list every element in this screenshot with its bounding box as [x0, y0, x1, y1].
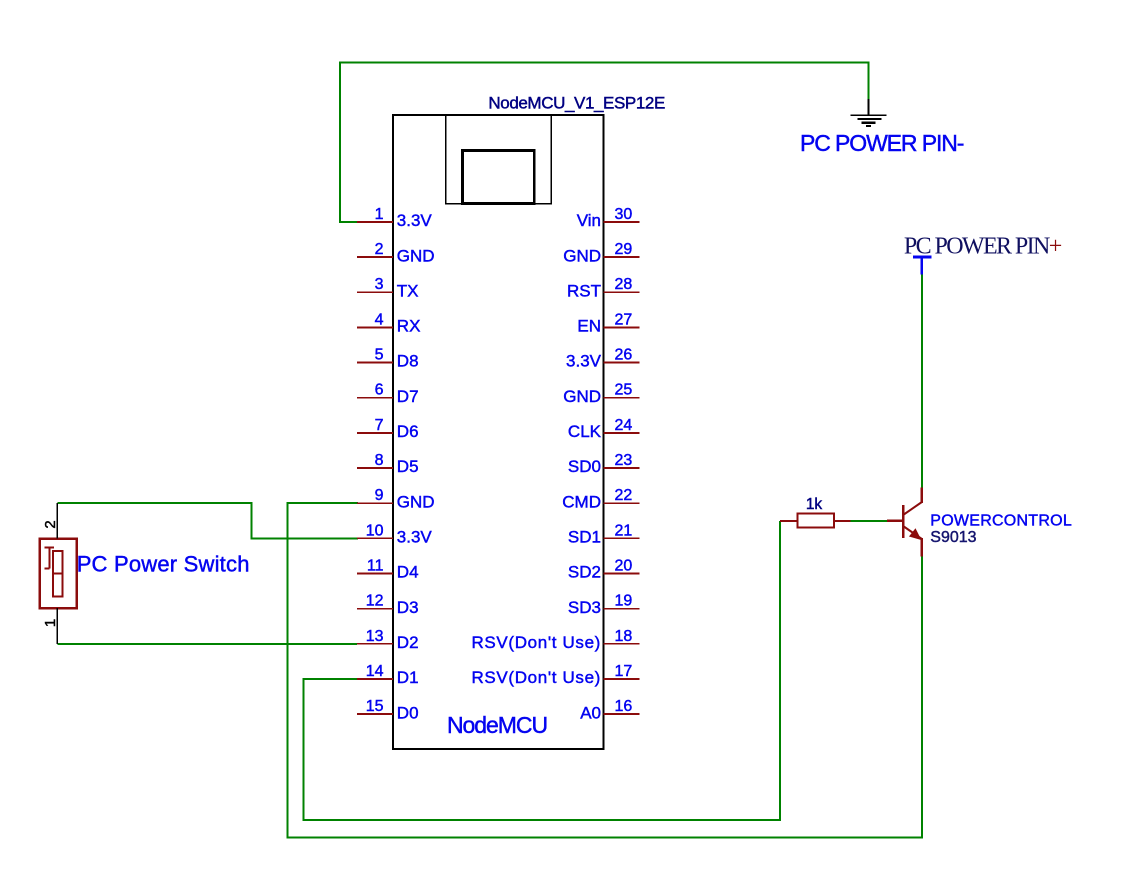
svg-text:1: 1	[42, 619, 59, 627]
svg-text:A0: A0	[580, 703, 601, 722]
svg-text:15: 15	[366, 698, 384, 715]
svg-text:EN: EN	[577, 317, 601, 336]
svg-text:PC Power Switch: PC Power Switch	[77, 552, 250, 577]
svg-text:28: 28	[615, 276, 633, 293]
pin 29 (GND) right	[563, 241, 639, 265]
pin 26 (3.3V) right	[566, 347, 639, 371]
pin 5 (D8) left	[357, 347, 419, 371]
svg-text:4: 4	[375, 311, 384, 328]
svg-text:D0: D0	[397, 703, 419, 722]
svg-text:14: 14	[366, 663, 384, 680]
svg-text:CLK: CLK	[568, 422, 602, 441]
svg-text:D7: D7	[397, 387, 419, 406]
pin 9 (GND) left	[357, 487, 435, 511]
pin 15 (D0) left	[357, 698, 419, 722]
svg-text:GND: GND	[563, 387, 601, 406]
svg-text:2: 2	[375, 241, 384, 258]
svg-text:30: 30	[615, 206, 633, 223]
svg-text:1k: 1k	[806, 496, 823, 513]
wire switch pin2 to NodeMCU pin10 3.3V	[57, 503, 358, 538]
pin 28 (RST) right	[567, 276, 640, 300]
svg-text:25: 25	[615, 382, 633, 399]
svg-text:D8: D8	[397, 352, 419, 371]
chip U1 top notch	[446, 115, 552, 204]
switch SW1 pin 1 stub	[56, 608, 58, 644]
pin 23 (SD0) right	[568, 452, 640, 476]
pin 10 (3.3V) left	[357, 522, 432, 546]
svg-text:NodeMCU: NodeMCU	[447, 712, 547, 738]
pin 14 (D1) left	[357, 663, 419, 687]
svg-text:21: 21	[615, 522, 633, 539]
svg-text:D6: D6	[397, 422, 419, 441]
pin 20 (SD2) right	[568, 558, 640, 582]
svg-text:PC POWER PIN-: PC POWER PIN-	[800, 130, 964, 156]
svg-text:9: 9	[375, 487, 384, 504]
pin 13 (D2) left	[357, 628, 419, 652]
pin 7 (D6) left	[357, 417, 419, 441]
switch SW1 actuator T symbol	[45, 547, 55, 568]
svg-text:13: 13	[366, 628, 384, 645]
svg-text:10: 10	[366, 522, 384, 539]
svg-text:17: 17	[615, 663, 633, 680]
pin 19 (SD3) right	[568, 593, 640, 617]
chip U1 usb connector rectangle	[463, 150, 535, 203]
resistor R1 1k body	[780, 514, 851, 528]
pin 11 (D4) left	[357, 558, 419, 582]
svg-text:1: 1	[375, 206, 384, 223]
svg-text:D5: D5	[397, 457, 419, 476]
switch SW1 PC Power Switch body	[40, 539, 77, 609]
svg-text:GND: GND	[563, 246, 601, 265]
svg-text:SD0: SD0	[568, 457, 601, 476]
svg-text:26: 26	[615, 347, 633, 364]
svg-text:RST: RST	[567, 281, 601, 300]
wire NodeMCU pin9 GND to transistor emitter (bottom loop)	[288, 503, 922, 837]
svg-text:2: 2	[42, 520, 59, 528]
svg-text:19: 19	[615, 593, 633, 610]
svg-text:SD3: SD3	[568, 598, 601, 617]
pin 17 (RSV(Don&#39;t Use)) right	[472, 663, 640, 687]
svg-text:3.3V: 3.3V	[566, 352, 602, 371]
pin 30 (Vin) right	[577, 206, 640, 230]
pin 16 (A0) right	[580, 698, 639, 722]
wire NodeMCU pin14 D1 to resistor R1 left lead	[304, 521, 780, 820]
svg-text:S9013: S9013	[930, 529, 976, 546]
svg-text:23: 23	[615, 452, 633, 469]
pin 6 (D7) left	[357, 382, 419, 406]
pin 24 (CLK) right	[568, 417, 640, 441]
svg-text:3.3V: 3.3V	[397, 528, 433, 547]
svg-text:24: 24	[615, 417, 633, 434]
svg-text:RSV(Don't Use): RSV(Don't Use)	[472, 668, 602, 687]
svg-text:22: 22	[615, 487, 633, 504]
svg-text:27: 27	[615, 311, 633, 328]
pin 21 (SD1) right	[568, 522, 640, 546]
svg-text:18: 18	[615, 628, 633, 645]
svg-text:7: 7	[375, 417, 384, 434]
svg-text:29: 29	[615, 241, 633, 258]
svg-text:6: 6	[375, 382, 384, 399]
ground symbol (PC POWER PIN-)	[850, 99, 886, 126]
svg-text:D3: D3	[397, 598, 419, 617]
svg-text:PC POWER PIN+: PC POWER PIN+	[904, 234, 1062, 260]
pin 25 (GND) right	[563, 382, 639, 406]
svg-text:20: 20	[615, 558, 633, 575]
pin 18 (RSV(Don&#39;t Use)) right	[472, 628, 640, 652]
pin 4 (RX) left	[357, 311, 420, 335]
pin 3 (TX) left	[357, 276, 419, 300]
chip U1 NodeMCU_V1_ESP12E body	[393, 115, 604, 749]
wire PC POWER PIN+ terminal to transistor collector	[921, 275, 923, 488]
pin 2 (GND) left	[357, 241, 435, 265]
svg-text:11: 11	[367, 558, 384, 575]
transistor Q1 S9013 NPN symbol	[887, 488, 922, 557]
svg-text:POWERCONTROL: POWERCONTROL	[930, 513, 1072, 530]
pin 27 (EN) right	[577, 311, 639, 335]
svg-text:16: 16	[615, 698, 633, 715]
wire net 3.3V pin1 to ground terminal (top loop)	[340, 63, 869, 222]
switch SW1 pin 2 stub	[56, 503, 58, 539]
svg-text:RSV(Don't Use): RSV(Don't Use)	[472, 633, 602, 652]
svg-text:5: 5	[375, 347, 384, 364]
svg-text:8: 8	[375, 452, 384, 469]
svg-text:12: 12	[366, 593, 384, 610]
svg-text:TX: TX	[397, 281, 419, 300]
pin 8 (D5) left	[357, 452, 419, 476]
svg-text:SD2: SD2	[568, 563, 601, 582]
svg-text:D4: D4	[397, 563, 419, 582]
svg-text:SD1: SD1	[568, 528, 601, 547]
svg-text:3.3V: 3.3V	[397, 211, 433, 230]
pin 12 (D3) left	[357, 593, 419, 617]
wire switch pin1 to NodeMCU pin13 D2	[57, 643, 357, 645]
svg-text:GND: GND	[397, 492, 435, 511]
svg-text:D1: D1	[397, 668, 419, 687]
pin 22 (CMD) right	[562, 487, 639, 511]
svg-text:GND: GND	[397, 246, 435, 265]
svg-text:CMD: CMD	[562, 492, 601, 511]
svg-text:Vin: Vin	[577, 211, 601, 230]
svg-text:RX: RX	[397, 317, 421, 336]
switch SW1 contact rectangle	[53, 551, 62, 597]
svg-text:D2: D2	[397, 633, 419, 652]
svg-text:NodeMCU_V1_ESP12E: NodeMCU_V1_ESP12E	[488, 94, 665, 113]
pin 1 (3.3V) left	[357, 206, 432, 230]
power terminal PC POWER PIN+	[913, 257, 932, 275]
wire resistor R1 to transistor base	[851, 520, 888, 522]
svg-text:3: 3	[375, 276, 384, 293]
